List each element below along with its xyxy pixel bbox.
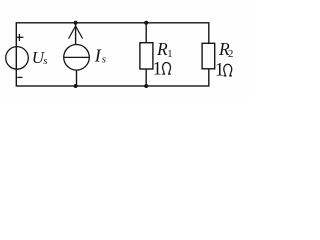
svg-text:1: 1: [167, 48, 173, 60]
svg-text:1: 1: [215, 61, 224, 81]
svg-text:2: 2: [228, 48, 234, 60]
svg-text:I: I: [94, 46, 102, 66]
svg-text:1: 1: [153, 60, 162, 80]
svg-text:s: s: [43, 55, 47, 67]
svg-text:s: s: [102, 54, 106, 66]
